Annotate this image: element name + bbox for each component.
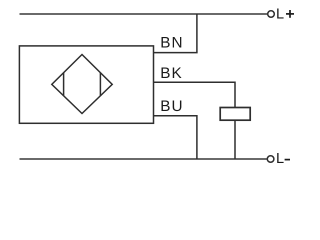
left triangle chord	[63, 73, 65, 96]
right triangle chord	[99, 73, 101, 96]
terminal circle L+	[268, 11, 275, 18]
svg-text:BK: BK	[160, 65, 183, 82]
svg-text:L: L	[276, 6, 284, 22]
minus sign of L-	[285, 159, 290, 161]
terminal circle L-	[267, 156, 274, 163]
load resistor RL	[220, 108, 250, 121]
sensor box U1	[19, 46, 153, 123]
proximity sensor diamond	[52, 55, 112, 114]
svg-text:BN: BN	[160, 35, 183, 52]
wire L+ rail	[20, 13, 268, 15]
plus sign of L+	[286, 13, 294, 15]
svg-text:L: L	[276, 151, 284, 167]
wire BK: box to load to bottom rail	[154, 82, 236, 159]
svg-text:BU: BU	[160, 98, 183, 115]
wire BU: box to bottom rail	[154, 116, 197, 159]
wire L- rail	[20, 158, 267, 160]
wire BN: box to top rail	[154, 14, 197, 53]
